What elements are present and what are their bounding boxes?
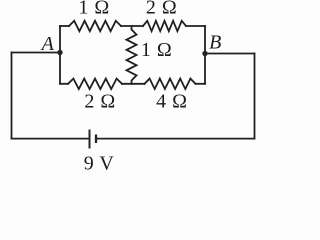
wire top rail left lead <box>60 25 69 27</box>
svg-text:2 Ω: 2 Ω <box>84 91 115 113</box>
svg-text:1 Ω: 1 Ω <box>141 39 172 61</box>
wire bottom rail right lead <box>196 83 206 85</box>
wire top rail middle segment <box>121 25 143 27</box>
wire bottom rail left lead <box>60 83 68 85</box>
svg-text:9 V: 9 V <box>84 153 115 175</box>
svg-text:4 Ω: 4 Ω <box>156 91 187 113</box>
resistor R5 1ohm middle vertical zigzag <box>127 26 137 84</box>
svg-text:2 Ω: 2 Ω <box>146 0 177 19</box>
resistor R3 2ohm bottom-left zigzag <box>68 79 122 89</box>
svg-text:B: B <box>209 32 222 54</box>
wire battery to bottom right corner <box>96 138 255 140</box>
node B junction dot <box>202 51 207 56</box>
resistor R2 2ohm top-right zigzag <box>143 21 186 31</box>
wire node B stub right <box>205 53 255 55</box>
node A junction dot <box>57 50 62 55</box>
battery BT1 short plate <box>95 135 97 144</box>
wire left bridge vertical <box>59 26 61 84</box>
svg-text:A: A <box>40 33 55 55</box>
wire bottom left to battery <box>12 138 90 140</box>
svg-text:1 Ω: 1 Ω <box>78 0 109 19</box>
wire node A stub left <box>12 52 61 54</box>
wire top rail right lead <box>186 25 205 27</box>
wire right bridge vertical <box>204 26 206 84</box>
wire left outer vertical <box>11 53 13 139</box>
wire right outer vertical <box>254 54 256 139</box>
wire bottom rail middle segment <box>122 83 145 85</box>
resistor R1 1ohm top-left zigzag <box>69 21 121 31</box>
resistor R4 4ohm bottom-right zigzag <box>145 79 196 89</box>
battery BT1 long plate <box>89 130 91 149</box>
